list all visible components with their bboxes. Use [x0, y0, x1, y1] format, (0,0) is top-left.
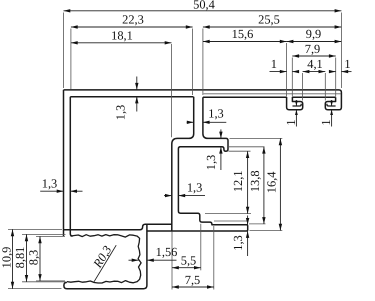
svg-text:1,3: 1,3	[231, 235, 245, 251]
svg-text:1: 1	[271, 57, 277, 71]
svg-text:12,1: 12,1	[231, 170, 245, 192]
svg-text:4,1: 4,1	[307, 57, 323, 71]
svg-text:8,3: 8,3	[27, 250, 41, 266]
svg-text:18,1: 18,1	[111, 28, 133, 42]
svg-text:5,5: 5,5	[181, 253, 197, 267]
svg-text:1,3: 1,3	[204, 155, 218, 171]
svg-text:7,5: 7,5	[185, 273, 201, 287]
svg-text:22,3: 22,3	[122, 13, 144, 27]
svg-text:7,9: 7,9	[305, 42, 321, 56]
svg-text:1,3: 1,3	[42, 177, 58, 191]
svg-text:1: 1	[319, 119, 333, 125]
svg-text:1,3: 1,3	[208, 107, 224, 121]
svg-text:9,9: 9,9	[306, 27, 322, 41]
svg-text:15,6: 15,6	[232, 27, 254, 41]
svg-text:1,3: 1,3	[114, 105, 128, 121]
svg-text:10,9: 10,9	[0, 247, 14, 269]
svg-text:R0,3: R0,3	[90, 243, 115, 271]
svg-text:25,5: 25,5	[258, 13, 280, 27]
svg-text:50,4: 50,4	[193, 0, 215, 12]
svg-text:1,3: 1,3	[187, 181, 203, 195]
svg-text:16,4: 16,4	[265, 172, 279, 194]
svg-text:1,56: 1,56	[156, 245, 178, 259]
svg-text:8,81: 8,81	[13, 247, 27, 269]
svg-text:1: 1	[284, 119, 298, 125]
svg-text:1: 1	[344, 57, 350, 71]
svg-text:13,8: 13,8	[248, 170, 262, 192]
